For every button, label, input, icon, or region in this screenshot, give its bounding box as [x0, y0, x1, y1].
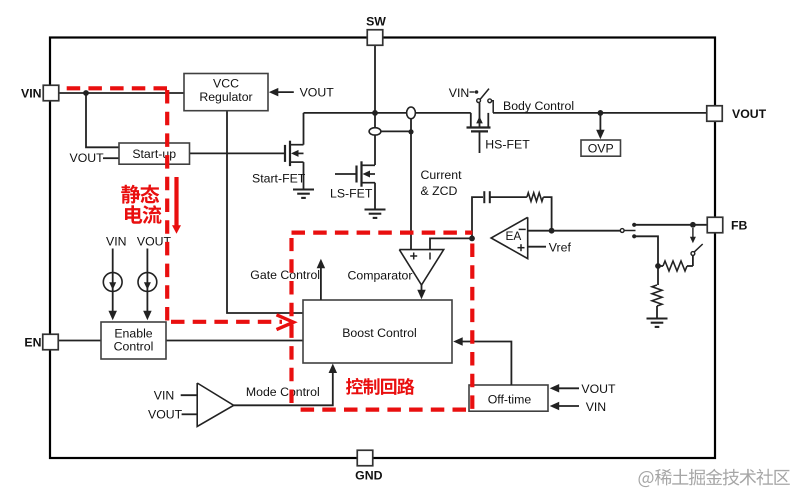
svg-text:VCC: VCC — [213, 77, 239, 91]
svg-text:VOUT: VOUT — [148, 407, 183, 421]
body switch of HS-FET — [477, 99, 481, 103]
svg-text:Current: Current — [421, 168, 463, 182]
comparator output arrow into Boost Control — [421, 285, 423, 292]
pin FB — [707, 217, 723, 233]
red dashed quiescent path into Boost — [171, 320, 282, 324]
wire EA minus input rail — [528, 230, 621, 232]
ground under LS-FET — [365, 208, 386, 210]
arrow VIN into Off-time — [556, 405, 579, 407]
junction current sense — [408, 129, 413, 134]
block Start-up — [119, 143, 190, 164]
block Off-time — [469, 385, 548, 411]
svg-text:VOUT: VOUT — [70, 151, 105, 165]
svg-text:EA: EA — [506, 229, 522, 243]
wire Start-up output to Start-FET gate — [190, 152, 286, 154]
red dashed control-loop box — [292, 231, 473, 235]
wire SW rail horizontal — [304, 112, 471, 114]
svg-text:SW: SW — [366, 15, 386, 29]
block Enable Control — [101, 322, 166, 359]
svg-text:Vref: Vref — [549, 240, 572, 254]
junction FB divider node — [655, 263, 661, 269]
svg-text:VOUT: VOUT — [732, 107, 767, 121]
current probe on LS-FET leg — [369, 128, 381, 135]
transistor Start-FET — [284, 145, 286, 162]
op-amp EA — [491, 217, 528, 258]
wire VIN rail to VCC Regulator — [59, 92, 185, 94]
buffer mode-control — [197, 383, 234, 427]
comparator U1 — [399, 250, 443, 285]
ground under Start-FET — [293, 188, 314, 190]
block Boost Control — [303, 300, 452, 363]
wire Vref stub — [528, 246, 546, 248]
svg-text:Gate Control: Gate Control — [250, 268, 320, 282]
wire current sense join — [381, 130, 411, 132]
wire body-control rail to VOUT pin — [493, 112, 707, 114]
switch pole at EA minus — [620, 229, 624, 233]
switch throw contacts — [632, 223, 636, 227]
pin VIN — [43, 85, 59, 101]
svg-text:GND: GND — [355, 468, 382, 482]
svg-text:VIN: VIN — [586, 400, 607, 414]
wire Mode Control to Boost Control — [234, 370, 333, 405]
arrow to OVP — [599, 113, 601, 132]
junction SW node — [372, 110, 378, 116]
red label quiescent current — [121, 185, 140, 204]
svg-text:Off-time: Off-time — [488, 392, 532, 406]
red arrow quiescent current — [174, 177, 178, 226]
svg-text:EN: EN — [24, 336, 41, 350]
svg-text:HS-FET: HS-FET — [485, 138, 530, 152]
IC boundary box — [50, 38, 715, 459]
junction OVP tap — [598, 110, 604, 116]
red dashed quiescent path from VIN — [45, 86, 169, 90]
svg-text:Body Control: Body Control — [503, 99, 574, 113]
svg-text:& ZCD: & ZCD — [421, 184, 458, 198]
pin GND — [357, 450, 373, 466]
pin VOUT — [707, 106, 723, 122]
wire EN pin to Enable Control — [58, 340, 101, 342]
svg-text:VIN: VIN — [21, 86, 42, 100]
svg-text:Mode Control: Mode Control — [246, 385, 320, 399]
wire EA output node — [469, 236, 475, 242]
wire EA output to comparator minus input — [430, 238, 472, 249]
pin EN — [43, 334, 59, 350]
compensation network of EA — [472, 197, 483, 238]
resistor FB trim — [658, 265, 663, 267]
wire SW pin down to LS-FET drain — [374, 45, 376, 165]
svg-text:Regulator: Regulator — [199, 90, 252, 104]
block VCC Regulator — [184, 74, 268, 111]
svg-text:LS-FET: LS-FET — [330, 187, 373, 201]
transistor HS-FET — [467, 126, 491, 128]
red label control loop — [346, 378, 363, 395]
wire Off-time to Boost Control — [459, 342, 511, 386]
svg-text:Boost Control: Boost Control — [342, 326, 417, 340]
transistor LS-FET — [355, 166, 357, 183]
svg-text:Control: Control — [114, 340, 154, 354]
pin SW — [367, 30, 383, 46]
svg-text:Start-up: Start-up — [132, 147, 176, 161]
svg-text:OVP: OVP — [588, 142, 614, 156]
junction FB tap — [690, 222, 696, 228]
wire VCC Regulator output to Boost Control — [227, 111, 303, 313]
wire lower contact branch — [634, 236, 658, 266]
resistor FB lower divider — [657, 266, 659, 285]
svg-text:Enable: Enable — [114, 326, 152, 340]
svg-text:VIN: VIN — [449, 86, 470, 100]
svg-text:VOUT: VOUT — [300, 86, 335, 100]
wire VIN branch down to Start-up — [86, 93, 119, 147]
current probe on SW rail — [407, 107, 416, 119]
watermark — [639, 471, 654, 487]
block OVP — [581, 140, 621, 156]
svg-text:Start-FET: Start-FET — [252, 172, 306, 186]
arrow Gate Control — [320, 266, 322, 300]
red dashed quiescent path vertical — [165, 90, 169, 322]
svg-text:Comparator: Comparator — [348, 268, 413, 282]
svg-text:VIN: VIN — [106, 234, 127, 248]
wire upper contact to FB pin — [634, 224, 707, 226]
arrow VOUT into Off-time — [556, 387, 579, 389]
junction node on VIN rail — [83, 90, 89, 96]
wire VOUT stub into Start-up — [103, 157, 119, 159]
ground FB divider — [647, 317, 668, 319]
svg-text:FB: FB — [731, 218, 748, 232]
svg-text:VOUT: VOUT — [581, 382, 616, 396]
svg-text:VIN: VIN — [154, 388, 175, 402]
arrow VOUT into VCC Regulator — [275, 91, 294, 93]
wire Enable Control to Boost Control — [166, 340, 303, 342]
junction compensation tap — [549, 228, 555, 234]
wire LS-FET source to ground — [374, 183, 376, 210]
switch FB trim — [692, 256, 694, 267]
